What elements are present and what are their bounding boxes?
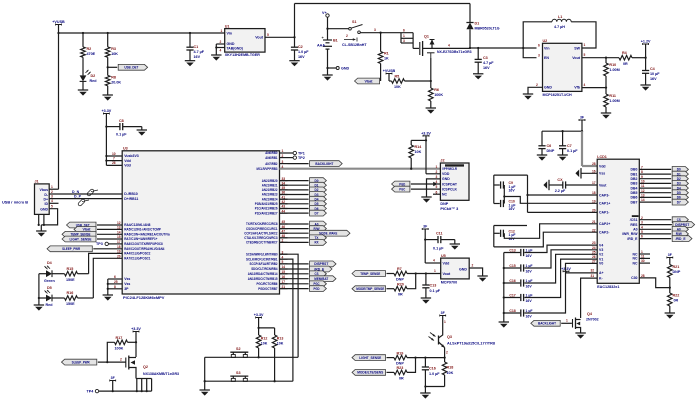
svg-text:150E: 150E: [66, 302, 75, 306]
svg-text:4: 4: [220, 48, 222, 52]
wires and flags D0-D7 MCU: [280, 178, 327, 216]
svg-text:NC: NC: [632, 257, 638, 261]
wire D4 to R15: [52, 273, 65, 275]
svg-text:Vdd: Vdd: [443, 261, 450, 265]
svg-text:TEMP_SENSE: TEMP_SENSE: [360, 272, 380, 276]
svg-text:Q2: Q2: [143, 365, 148, 369]
svg-text:TP1: TP1: [298, 151, 305, 155]
svg-text:4.7 µF: 4.7 µF: [483, 61, 494, 65]
svg-text:C16: C16: [429, 366, 436, 370]
wire CS flag LCD: [639, 217, 688, 223]
resistor R6: [429, 81, 444, 108]
svg-text:Vbat: Vbat: [365, 79, 374, 83]
svg-text:VPP/MCLR: VPP/MCLR: [442, 167, 457, 171]
switch S1: [344, 20, 363, 41]
svg-text:Vin: Vin: [227, 31, 233, 35]
svg-text:V2: V2: [599, 253, 603, 257]
svg-text:RA4/C12IN0-/AN8: RA4/C12IN0-/AN8: [124, 223, 150, 227]
net flag TEMP_SENSE to RA6: [62, 231, 122, 237]
wire RX flag: [280, 240, 327, 246]
svg-text:C6: C6: [547, 144, 552, 148]
svg-text:TAB(GND): TAB(GND): [227, 46, 243, 50]
svg-text:16V: 16V: [298, 55, 305, 59]
svg-text:15: 15: [117, 235, 121, 239]
wire CAP1+ route: [504, 197, 597, 204]
svg-text:R8: R8: [111, 76, 116, 80]
capacitor C1: [186, 33, 204, 61]
capacitors C13-C18 bias ladder: [504, 245, 597, 319]
ground flag C14: [543, 180, 549, 190]
net flag SLEEP_PWR Q2: [62, 359, 97, 365]
wire U1 Vout: [265, 33, 296, 38]
svg-text:LIGHT_SENSE: LIGHT_SENSE: [70, 237, 92, 241]
wire R20 up to node: [407, 274, 416, 289]
svg-text:0.1 µF: 0.1 µF: [567, 149, 578, 153]
svg-text:10K: 10K: [111, 52, 118, 56]
power flag 3F U5: [422, 225, 428, 230]
resistor R4: [619, 51, 632, 66]
LCD1 part number: [597, 285, 619, 289]
power flag 3F R21: [667, 253, 673, 258]
svg-text:D_P: D_P: [74, 194, 82, 198]
wire RD_E flag: [280, 266, 333, 272]
svg-text:3F: 3F: [423, 225, 427, 229]
svg-text:CL-SB12BnHT: CL-SB12BnHT: [342, 43, 367, 47]
svg-text:16V: 16V: [526, 270, 533, 274]
capacitor C8: [106, 119, 141, 136]
svg-text:+VUSB: +VUSB: [383, 69, 396, 73]
svg-text:D7: D7: [315, 211, 319, 215]
svg-text:16V: 16V: [526, 315, 533, 319]
capacitor C9: [494, 181, 516, 193]
svg-text:1: 1: [51, 185, 53, 189]
svg-text:3F: 3F: [580, 116, 584, 120]
svg-text:DNP: DNP: [440, 202, 448, 206]
svg-text:V0: V0: [599, 262, 603, 266]
Q1 part number: [437, 50, 472, 54]
svg-text:1: 1: [584, 43, 586, 47]
svg-text:R10: R10: [609, 63, 616, 67]
svg-text:AN7/RB2: AN7/RB2: [265, 162, 277, 166]
wire R2 top: [82, 33, 84, 47]
svg-text:4.7 µH: 4.7 µH: [554, 25, 565, 29]
wire CAP loop left side: [493, 175, 495, 203]
svg-text:RA9/C2OUT/RF0A/HLVD/AN4: RA9/C2OUT/RF0A/HLVD/AN4: [124, 247, 164, 251]
svg-text:3P: 3P: [124, 287, 129, 291]
svg-text:2: 2: [120, 357, 122, 361]
svg-text:CCP1/AF1A/CTPLS/RC2: CCP1/AF1A/CTPLS/RC2: [244, 231, 277, 235]
wire D- to U3: [49, 190, 122, 194]
svg-text:BACKLIGHT: BACKLIGHT: [538, 322, 557, 326]
wire node to USB_DET flag: [108, 66, 118, 68]
twisted pair mark D_P: [78, 199, 89, 206]
svg-text:R22: R22: [673, 294, 680, 298]
svg-text:V4: V4: [599, 243, 603, 247]
wire TX flag: [280, 235, 327, 241]
wire R19 to node: [407, 356, 445, 358]
svg-text:Vbus: Vbus: [40, 188, 49, 192]
capacitor C3: [475, 48, 495, 74]
svg-text:2: 2: [472, 264, 474, 268]
wire top rail to D1: [295, 4, 471, 38]
wire +3.3V to U3 supply pins: [105, 114, 107, 166]
wire R15 up: [78, 273, 89, 275]
resistor R8: [105, 75, 121, 85]
net flag MODE_TMP_SENSE: [352, 286, 394, 292]
capacitor C13: [422, 274, 441, 299]
svg-text:U5: U5: [441, 254, 446, 258]
svg-text:S3: S3: [236, 371, 241, 375]
svg-text:32: 32: [591, 269, 595, 273]
svg-text:10K: 10K: [394, 85, 401, 89]
wire MCLR net highlighted: [280, 168, 441, 170]
svg-text:26: 26: [112, 161, 116, 165]
J1 pin names: [40, 188, 49, 211]
ground U1: [211, 55, 221, 61]
svg-text:31: 31: [591, 274, 595, 278]
wire R14 top: [411, 140, 426, 145]
svg-text:R16: R16: [67, 291, 74, 295]
wire PGD flag: [280, 286, 327, 292]
svg-text:2: 2: [282, 154, 284, 158]
wire node to R1: [380, 33, 382, 52]
wire U3 Vss pins: [107, 275, 123, 295]
svg-text:GND: GND: [40, 208, 48, 212]
svg-text:Red: Red: [46, 303, 54, 307]
ground light sensor: [420, 393, 430, 399]
wire D5 anode: [38, 274, 46, 305]
svg-text:12: 12: [117, 221, 121, 225]
svg-text:NC: NC: [442, 193, 448, 197]
svg-text:R2: R2: [87, 47, 92, 51]
svg-text:MCP9700: MCP9700: [441, 280, 457, 284]
svg-text:C13: C13: [509, 249, 515, 253]
svg-text:100K: 100K: [115, 347, 124, 351]
svg-text:A+: A+: [599, 271, 604, 275]
svg-text:DB1: DB1: [631, 172, 638, 176]
ground U5: [477, 276, 487, 282]
J2 pin names: [436, 165, 458, 197]
svg-text:PGC: PGC: [399, 187, 405, 191]
svg-text:3: 3: [403, 39, 405, 43]
wire C9 C10 join: [503, 185, 505, 204]
svg-text:5: 5: [267, 33, 269, 37]
svg-text:DB0: DB0: [631, 168, 638, 172]
power flag +VUSB: [52, 20, 65, 25]
test point TP4: [87, 389, 99, 393]
net flag PGC J2: [392, 186, 441, 192]
test point TP1: [288, 151, 305, 155]
wire Q3 emitter down: [443, 348, 448, 359]
svg-text:4: 4: [584, 83, 586, 87]
svg-text:RX: RX: [315, 241, 319, 245]
capacitor C16 light filter: [422, 358, 441, 387]
svg-text:3F: 3F: [111, 376, 115, 380]
svg-text:GND: GND: [544, 86, 552, 90]
svg-text:0.1 µF: 0.1 µF: [116, 132, 127, 136]
wire R4 to +1.2V node: [632, 57, 647, 59]
svg-text:Vin: Vin: [544, 46, 550, 50]
svg-text:PICkit™ 3: PICkit™ 3: [440, 207, 458, 211]
LED D2: [80, 70, 98, 83]
svg-text:NX138AKMB/T1xGR3: NX138AKMB/T1xGR3: [143, 372, 179, 376]
wire J2 GND: [427, 179, 441, 197]
wire CAP loop top: [494, 174, 528, 176]
svg-text:AN21/RB22: AN21/RB22: [262, 188, 278, 192]
ground U2: [523, 94, 533, 100]
wire J1 VBUS: [49, 185, 58, 189]
wire U2 GND: [528, 87, 543, 94]
svg-text:SDO/CLT/RCN/RB4: SDO/CLT/RCN/RB4: [251, 267, 277, 271]
wire R3 to node: [107, 57, 109, 75]
svg-text:AN6/RB1: AN6/RB1: [265, 156, 277, 160]
ground D2: [78, 90, 88, 96]
svg-text:3F: 3F: [668, 253, 672, 257]
resistor R17: [115, 336, 137, 351]
svg-text:16V: 16V: [650, 77, 657, 81]
net flag SLEEP_PWR to RA9: [47, 246, 122, 252]
capacitor C6: [538, 131, 554, 155]
ground R11: [601, 113, 611, 119]
svg-text:R15: R15: [67, 267, 74, 271]
svg-text:DNP: DNP: [547, 149, 555, 153]
U1 pin 1 number: [221, 29, 223, 33]
svg-text:PGD: PGD: [399, 182, 405, 186]
capacitor C2: [291, 37, 309, 60]
svg-text:16V: 16V: [194, 55, 201, 59]
wire CAP2+ route: [504, 224, 597, 239]
svg-text:GND: GND: [442, 177, 450, 181]
svg-text:USB_DET: USB_DET: [124, 66, 139, 70]
wire +VUSB to R5: [389, 74, 392, 82]
svg-text:MODE/TMP_SENSE: MODE/TMP_SENSE: [356, 287, 384, 291]
svg-text:Vout: Vout: [599, 183, 607, 187]
svg-text:AN13/RDC/CTN/RB15: AN13/RDC/CTN/RB15: [248, 277, 278, 281]
wire MEM_BAT flag: [280, 276, 337, 282]
svg-text:NC: NC: [632, 252, 638, 256]
svg-text:XKY13H2EMB-TGER: XKY13H2EMB-TGER: [225, 53, 261, 57]
svg-text:1: 1: [641, 250, 643, 254]
svg-text:4: 4: [448, 43, 450, 47]
twisted pair mark D_N: [87, 189, 98, 196]
svg-text:J2: J2: [440, 159, 444, 163]
net flag PGD J2: [392, 181, 441, 187]
svg-text:B1: B1: [333, 39, 338, 43]
svg-text:16V: 16V: [509, 189, 516, 193]
wire Q1 drain out: [432, 43, 470, 48]
svg-text:NC: NC: [632, 261, 638, 265]
power flag +3.3V LCD backlight: [561, 267, 597, 273]
resistor R23: [394, 366, 407, 380]
svg-text:C1: C1: [194, 45, 199, 49]
svg-text:2: 2: [220, 40, 222, 44]
svg-text:Vout: Vout: [572, 56, 581, 60]
wire main rail to U2: [470, 47, 537, 49]
wire +3.3V to Q2: [135, 332, 137, 358]
svg-text:ALSxPT19a315C/L177/TR8: ALSxPT19a315C/L177/TR8: [447, 342, 495, 346]
svg-text:TX/RTX/CK/RECC/RC8: TX/RTX/CK/RECC/RC8: [246, 222, 278, 226]
capacitor C4: [642, 58, 660, 85]
wire U5 GND: [469, 264, 482, 277]
svg-text:R3: R3: [111, 47, 116, 51]
svg-text:1: 1: [444, 320, 446, 324]
svg-text:25: 25: [114, 280, 118, 284]
svg-text:CAP3-: CAP3-: [599, 193, 610, 197]
wire J1 GND shield: [38, 205, 58, 232]
svg-text:Vusb3V3: Vusb3V3: [124, 154, 139, 158]
wire +VUSB horizontal bus: [59, 32, 225, 34]
svg-text:20.0K: 20.0K: [111, 81, 121, 85]
svg-text:14: 14: [117, 230, 121, 234]
svg-text:Vss: Vss: [124, 282, 130, 286]
svg-text:SCLK/RCF1/CINT/RB1: SCLK/RCF1/CINT/RB1: [246, 257, 278, 261]
wire light sensor bottom: [424, 385, 444, 393]
resistor R11: [604, 88, 620, 113]
svg-text:2N7002: 2N7002: [586, 317, 599, 321]
svg-text:C8: C8: [119, 119, 124, 123]
svg-text:AN6/RB0: AN6/RB0: [265, 151, 277, 155]
U1 pin names: [227, 31, 264, 50]
wire U3 supply stubs: [106, 152, 122, 166]
svg-text:CAP1+: CAP1+: [599, 202, 610, 206]
wire A0 flag LCD: [639, 226, 688, 232]
svg-text:28: 28: [592, 162, 596, 166]
svg-text:PIC24LF128KM6xMPV: PIC24LF128KM6xMPV: [123, 295, 165, 300]
svg-text:NX-E27SDBsT1xGR3: NX-E27SDBsT1xGR3: [437, 50, 472, 54]
ground J1: [36, 231, 46, 237]
wire R8 to ground: [107, 86, 109, 95]
svg-text:/RD_E: /RD_E: [676, 237, 686, 241]
wire RD_E flag LCD: [639, 236, 692, 242]
svg-text:C13: C13: [430, 283, 437, 287]
resistor R20: [394, 282, 407, 296]
ground R6: [426, 108, 436, 114]
svg-text:0R: 0R: [399, 376, 404, 380]
svg-text:10K: 10K: [415, 150, 422, 154]
svg-text:AN21/RB23: AN21/RB23: [262, 193, 278, 197]
svg-text:LIGHT_SENSE: LIGHT_SENSE: [359, 356, 381, 360]
wire LCD NC to R21: [639, 274, 670, 288]
svg-text:MODE/LTE/SENS: MODE/LTE/SENS: [357, 371, 383, 375]
svg-text:1: 1: [434, 269, 436, 273]
svg-text:10K: 10K: [261, 342, 268, 346]
svg-text:3: 3: [374, 28, 376, 32]
wire +VUSB vertical to J1 VBUS: [58, 25, 60, 190]
wire R13 to S3 row: [273, 348, 275, 382]
wire R17 to gate net: [106, 342, 114, 363]
svg-text:C18: C18: [509, 309, 515, 313]
svg-text:150E: 150E: [66, 278, 75, 282]
resistor R5: [392, 75, 405, 89]
net flag USB_DET: [118, 64, 147, 70]
power flag +1.2V: [641, 40, 651, 58]
svg-text:TP2: TP2: [298, 156, 305, 160]
U2 part number: [543, 93, 573, 97]
connector J1 body: [35, 180, 50, 215]
svg-text:1: 1: [221, 29, 223, 33]
svg-text:0.1 µF: 0.1 µF: [433, 246, 444, 250]
ground C1: [185, 61, 195, 67]
svg-text:D2: D2: [91, 74, 96, 78]
resistor R19: [394, 351, 407, 365]
svg-text:C30: C30: [631, 276, 637, 280]
wire EN tie: [523, 48, 536, 58]
wire D1 to rail: [469, 29, 471, 49]
capacitor C7: [559, 131, 578, 155]
ground R22: [665, 313, 675, 319]
svg-text:11: 11: [641, 254, 645, 258]
wire C12 loop left: [493, 226, 495, 247]
inductor L1: [552, 15, 571, 29]
wire U2 Vfb: [582, 87, 606, 89]
svg-text:S1: S1: [352, 20, 357, 24]
wire CS flag: [280, 271, 327, 277]
ground C3: [473, 74, 483, 80]
svg-text:/RD_E: /RD_E: [627, 237, 638, 241]
svg-text:2: 2: [446, 351, 448, 355]
svg-text:1: 1: [282, 149, 284, 153]
svg-text:D7: D7: [677, 200, 681, 204]
resistor R1: [378, 52, 389, 64]
svg-text:20: 20: [117, 254, 121, 258]
ground C13: [421, 298, 431, 304]
wire D5 to R16: [52, 297, 65, 299]
svg-text:Vdd: Vdd: [124, 159, 131, 163]
connector J2 body: [440, 159, 469, 201]
svg-text:DNP: DNP: [673, 270, 681, 274]
svg-text:S2: S2: [236, 347, 241, 351]
svg-text:1: 1: [436, 165, 438, 169]
svg-text:DB5: DB5: [631, 191, 638, 195]
U3 right pin stubs: [280, 149, 288, 289]
power flag +VUSB gate divider: [383, 69, 396, 74]
wire LCD supply rail: [542, 130, 583, 132]
svg-text:C17: C17: [509, 294, 515, 298]
svg-text:CSCK/CP/REC/C1/RC1: CSCK/CP/REC/C1/RC1: [246, 227, 278, 231]
svg-text:V3: V3: [599, 248, 603, 252]
svg-text:U3: U3: [123, 147, 128, 151]
ground battery: [322, 75, 332, 81]
svg-text:DB6: DB6: [631, 196, 638, 200]
svg-text:MBR0520LT1G: MBR0520LT1G: [475, 27, 500, 31]
test point TP3: [96, 242, 122, 246]
U3 right pin names: [244, 151, 277, 291]
svg-text:L1: L1: [558, 15, 562, 19]
svg-text:ID: ID: [45, 202, 49, 206]
svg-text:R13: R13: [277, 337, 284, 341]
svg-text:ICSPDAT: ICSPDAT: [442, 182, 458, 186]
svg-text:AAA: AAA: [317, 44, 325, 48]
ground flag LCD Vss: [575, 168, 597, 178]
svg-text:RA8/C1OUT/TX/REF0/PGC8: RA8/C1OUT/TX/REF0/PGC8: [124, 242, 163, 246]
svg-text:16V: 16V: [526, 285, 533, 289]
svg-text:RA4/C1LIG/POSC2: RA4/C1LIG/POSC2: [124, 252, 150, 256]
U3 part number: [123, 295, 165, 300]
resistor R16: [65, 291, 78, 306]
svg-text:2: 2: [346, 34, 348, 38]
svg-text:R6: R6: [434, 88, 439, 92]
svg-text:Q1: Q1: [424, 35, 429, 39]
U1 part number: [225, 53, 261, 57]
svg-text:1.00M: 1.00M: [609, 68, 619, 72]
wire R7 to U5 Vout: [407, 269, 441, 275]
svg-text:16V: 16V: [483, 66, 490, 70]
U5 pin names: [443, 261, 468, 276]
svg-text:19: 19: [117, 250, 121, 254]
resistor R3: [105, 47, 118, 57]
ground C6: [537, 155, 547, 161]
transistor Q3 phototransistor: [429, 333, 452, 348]
